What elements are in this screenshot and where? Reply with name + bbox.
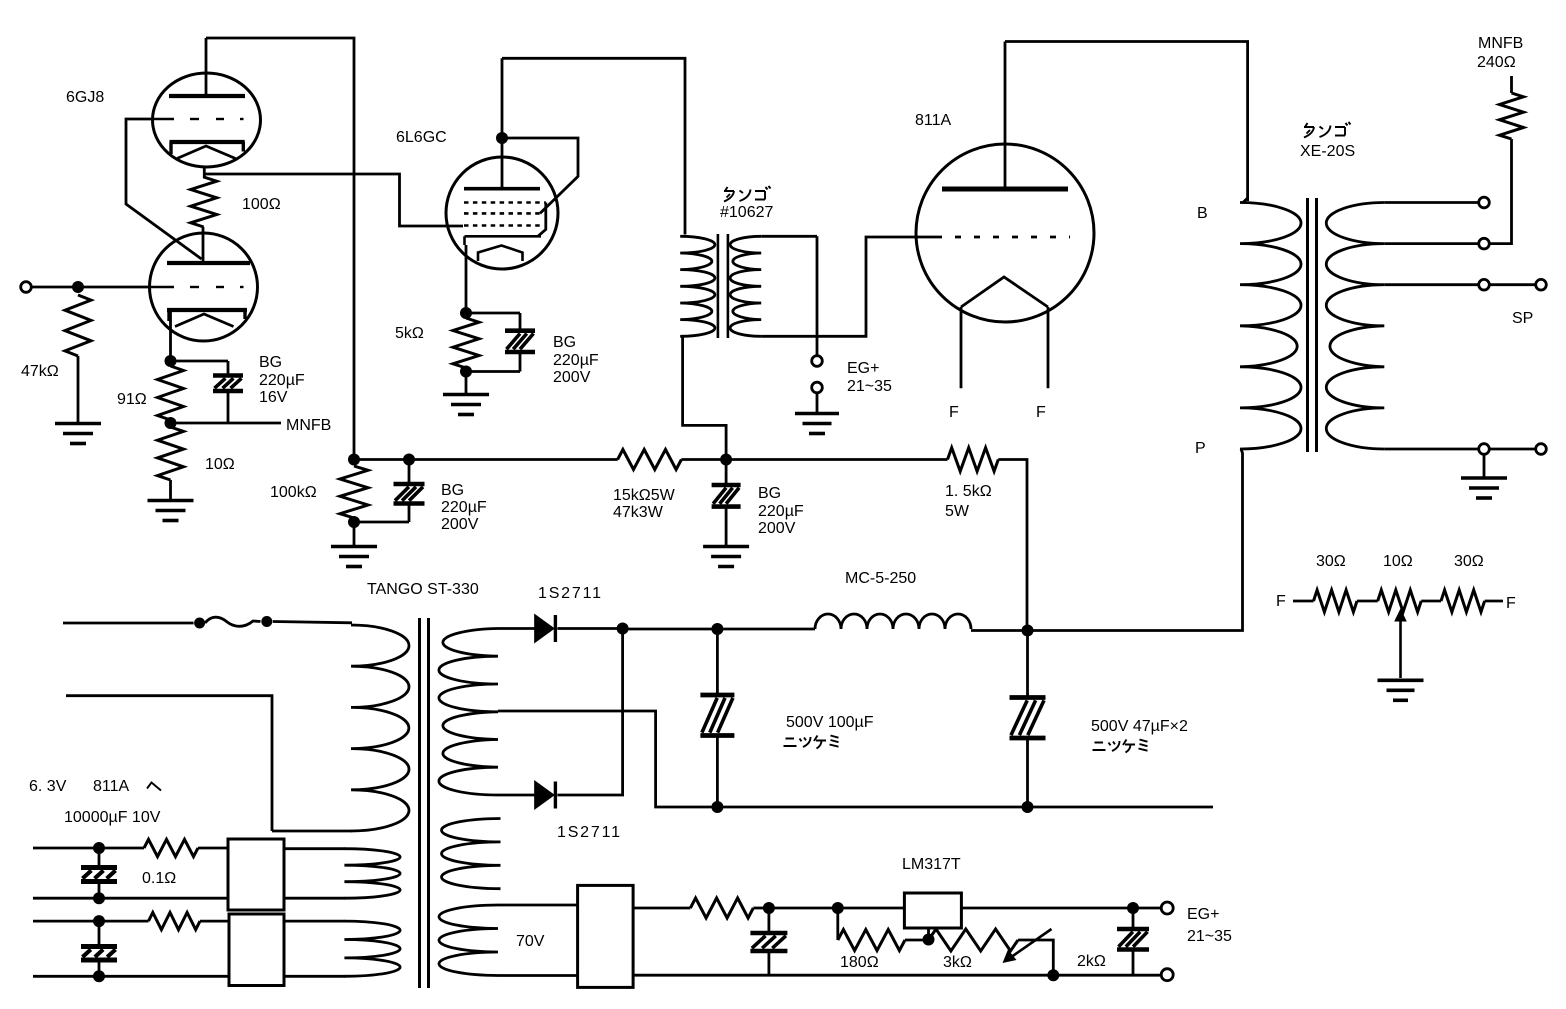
tube V3 6L6GC envelope [446,157,558,269]
C6 top lead [1026,631,1029,698]
T1 primary bottom wire [683,336,727,459]
svg-text:47kΩ: 47kΩ [21,363,59,380]
V2 heater filament [175,314,234,327]
wire F right lead [1485,600,1503,603]
svg-text:240Ω: 240Ω [1477,54,1516,71]
svg-text:5kΩ: 5kΩ [395,325,424,342]
wire box1 to winding A bottom [284,897,345,900]
svg-text:21~35: 21~35 [847,378,892,395]
T2 HV secondary winding [439,629,498,796]
terminal tap1 [1479,197,1490,208]
node filter cap (LM in) [763,902,775,914]
AC input wire 1 [63,622,194,625]
wire D2 to node [557,629,622,796]
svg-text:1. 5kΩ: 1. 5kΩ [945,483,992,500]
V3 cathode lead [465,245,468,313]
node 91Ω bottom / MNFB [165,417,177,429]
heater rail B bottom [33,975,229,978]
svg-text:70V: 70V [516,933,545,950]
svg-text:6L6GC: 6L6GC [396,129,447,146]
label ニッケミ (C6) [1093,743,1106,751]
svg-text:#10627: #10627 [720,204,773,221]
svg-text:10Ω: 10Ω [205,456,235,473]
svg-text:220µF: 220µF [553,352,599,369]
svg-text:2kΩ: 2kΩ [1077,953,1106,970]
svg-text:6. 3V: 6. 3V [29,778,67,795]
terminal EG+ out [1161,902,1173,914]
regulator LM317T box [904,893,961,928]
wire 10Ω to ground [169,480,172,499]
svg-text:EG+: EG+ [847,360,879,377]
V1 heater filament [177,146,236,159]
svg-text:1S2711: 1S2711 [538,585,603,602]
svg-text:BG: BG [259,354,282,371]
wire winding D to box3 top [498,904,578,907]
wire node to choke [623,628,815,631]
T3 tap lead 3 [1384,283,1477,286]
wire MNFB stub [171,422,282,425]
svg-text:F: F [1276,593,1286,610]
C7 top lead [768,908,771,933]
wire V1 cathode to 6L6GC grid [204,174,463,226]
C5 top lead [716,629,719,695]
node A1 [93,842,105,854]
wire 0.1Ω to box1 [198,847,228,850]
rectifier box3 (70V) [578,885,634,987]
T3 P lead [1028,449,1243,631]
label タンゴ (T1) [724,187,734,202]
capacitor C1 BG 220µF16V lead [227,361,230,376]
wire LM output [962,907,1161,910]
T2 filament winding C [441,819,500,889]
ground for C4 [703,547,749,567]
wire 1.5k to B+ node [998,460,1027,630]
C4 top lead [725,460,728,486]
svg-text:200V: 200V [441,516,479,533]
terminal EG- out [1161,969,1173,981]
capacitor C8 (2kΩ pos) [1117,908,1149,975]
svg-text:200V: 200V [553,369,591,386]
V4 filament lead F1 [960,307,963,388]
choke MC-5-250 [815,614,971,629]
diode D2 1S2711 [535,782,556,809]
V1 grid dashes [153,118,244,120]
svg-text:3kΩ: 3kΩ [943,954,972,971]
svg-text:P: P [1195,440,1206,457]
pot wiper arrow [1394,609,1407,679]
V3 plate bar [464,187,540,191]
T3 tap lead 2 [1384,242,1477,245]
svg-text:100Ω: 100Ω [242,196,281,213]
svg-text:LM317T: LM317T [902,856,961,873]
AC input wire 2 [66,696,272,831]
svg-text:100kΩ: 100kΩ [270,484,317,501]
node 100k bottom [348,516,360,528]
wire V1 grid [126,119,202,259]
resistor 1.5kΩ5W [948,448,999,472]
wire cathode to C1 [171,360,229,363]
wire box2 to winding B top [284,920,345,923]
T1 secondary top lead [761,235,817,238]
wire box3 to R series [633,907,690,910]
fuse dot left [194,618,205,629]
terminal tap4 [1479,444,1490,455]
resistor 180Ω [838,930,905,951]
node C5 bottom [711,801,723,813]
node 5k bottom [460,366,472,378]
svg-text:MNFB: MNFB [286,417,331,434]
node decoupling C3 [403,454,415,466]
wire B+ rail segment 1 [354,458,618,461]
svg-text:10Ω: 10Ω [1383,553,1413,570]
V2 plate bar [167,261,250,265]
wire LM input [769,907,905,910]
wire 0.1Ω B to box2 [200,920,229,923]
tube V4 811A envelope [916,144,1094,322]
wire 30-10 [1357,600,1378,603]
wire 47k to ground [77,356,80,422]
svg-text:F: F [1506,595,1516,612]
C7 bottom lead [768,951,771,975]
resistor series (70V) [690,898,753,918]
svg-text:EG+: EG+ [1187,906,1219,923]
svg-text:BG: BG [758,485,781,502]
svg-text:F: F [949,404,959,421]
V1 plate lead wire [205,38,208,96]
node choke output [1022,625,1034,637]
resistor 47kΩ [65,295,91,356]
C5 bottom lead [716,736,719,808]
C4 bottom lead [725,507,728,545]
wire fuse to primary [273,622,352,623]
wire tap4 to SP return [1491,448,1535,451]
wire B+ rail segment 2 [681,458,947,461]
wire V3 g2 tie [502,138,578,213]
V3 plate lead [501,58,504,188]
ground at EG+ terminal [795,414,839,434]
V3 grid row3 dashes [464,224,540,227]
svg-text:91Ω: 91Ω [117,391,147,408]
C3 bottom lead [408,504,411,523]
T2 primary winding [351,625,409,831]
node C5 top [711,623,723,635]
capacitor 10000µF A [81,848,117,898]
T3 primary top lead [1243,198,1248,203]
resistor 5kΩ [453,318,479,368]
node B+ rail left [348,454,360,466]
node C6 bottom [1022,801,1034,813]
svg-text:811A: 811A [93,778,130,795]
capacitor C1 BG 220µF 16V [213,376,243,392]
svg-text:500V 100µF: 500V 100µF [786,714,874,731]
resistor 91Ω [158,366,184,420]
capacitor C2 BG 220µF 200V [505,331,535,352]
T1 secondary bottom wire [761,237,936,336]
C2 top lead [519,313,522,331]
V4 filament [961,277,1048,307]
wire V1 plate to top rail [206,38,354,460]
node V3 plate [496,132,508,144]
tube V2 6GJ8 lower triode envelope [150,233,258,341]
svg-text:220µF: 220µF [758,503,804,520]
terminal tap3 [1479,279,1490,290]
V2 cathode bar [167,310,247,321]
node ADJ [923,934,935,946]
wire tap3 to SP [1491,283,1535,286]
V3 grid row1 dashes [464,201,546,204]
terminal SP return [1536,444,1547,455]
wire cathode to C2 [466,312,520,315]
node 3k bottom [1047,969,1059,981]
T2 core [420,618,429,988]
bottom return rail [633,974,1160,977]
V4 plate bar [942,187,1068,192]
svg-text:TANGO ST-330: TANGO ST-330 [367,581,479,598]
resistor 100Ω [191,177,217,227]
svg-text:1S2711: 1S2711 [557,824,622,841]
fuse element [205,617,261,626]
svg-text:F: F [1036,404,1046,421]
terminal tap2 [1479,238,1490,249]
label タンゴ (T3) [1304,123,1314,138]
heater rail A top [33,847,144,850]
ground for 100k [331,547,377,567]
svg-text:XE-20S: XE-20S [1300,143,1355,160]
V3 beam plate bracket [538,203,546,237]
HV top lead [498,627,535,630]
V2 cathode lead [169,310,172,361]
potentiometer 10Ω [1378,590,1422,612]
rectifier box2 [229,914,284,986]
C6 bottom lead [1026,738,1029,807]
rectifier box1 [228,839,284,910]
capacitor C4 BG 220µF 200V [712,485,741,507]
T3 secondary winding [1326,203,1384,450]
wire D1 to node [557,627,622,630]
wire 240Ω to tap2 [1491,139,1512,244]
T2 heater winding A [344,849,400,899]
node input junction [72,281,84,293]
V4 plate lead [1004,42,1007,190]
wire C2 to 5k bottom [466,370,520,373]
V1 cathode bar [170,142,245,154]
EG+ terminal ground stem [816,394,819,412]
svg-text:10000µF 10V: 10000µF 10V [64,809,161,826]
tube V1 6GJ8 upper triode envelope [153,73,261,167]
label ニッケミ (C5) [784,739,797,747]
wire 100k to ground [353,522,356,545]
T1 core [718,234,728,338]
svg-text:SP: SP [1512,310,1533,327]
T2 primary bottom lead [272,830,352,833]
wire 180 to ADJ [905,939,929,942]
svg-text:30Ω: 30Ω [1316,553,1346,570]
T1 secondary winding [730,236,761,336]
resistor 100kΩ [340,466,368,518]
svg-text:220µF: 220µF [259,372,305,389]
node V2 cathode [165,355,177,367]
V2 grid dashes [150,286,244,288]
input terminal [21,282,32,293]
resistor 15kΩ5W [618,450,682,470]
potentiometer 3kΩ [929,929,1019,951]
svg-text:6GJ8: 6GJ8 [66,89,104,106]
fuse dot right [261,616,272,627]
node B1 [93,915,105,927]
ground for 47k [55,424,101,444]
T3 tap lead 1 [1384,201,1477,204]
svg-text:BG: BG [553,334,576,351]
svg-text:0.1Ω: 0.1Ω [142,870,176,887]
resistor 30Ω right [1441,590,1485,612]
T3 primary winding [1240,203,1301,450]
ground at secondary common [1461,456,1507,499]
wire 180Ω stub [836,908,839,940]
wire 5k to ground [465,372,468,394]
svg-text:BG: BG [441,482,464,499]
wire input to V2 grid [33,286,151,289]
resistor 240Ω [1500,93,1524,139]
wire 10-30 [1421,600,1441,603]
svg-text:500V 47µF×2: 500V 47µF×2 [1091,718,1188,735]
svg-text:5W: 5W [945,503,970,520]
resistor 10Ω [158,427,184,480]
V4 grid dashes [936,236,1070,239]
T2 70V winding D [439,905,498,976]
C3 top lead [408,460,411,485]
wire winding D to box3 bottom [498,974,578,977]
svg-text:47k3W: 47k3W [613,504,664,521]
svg-text:200V: 200V [758,520,796,537]
ground for 5k [443,395,489,415]
svg-text:B: B [1197,205,1208,222]
svg-text:811A: 811A [915,112,952,129]
V3 cathode bar [465,236,542,245]
node B2 [93,970,105,982]
terminal EG+ lower [812,382,823,393]
resistor 30Ω left [1314,590,1358,612]
node LM317 input stub [832,902,844,914]
T3 core [1308,198,1317,452]
svg-text:220µF: 220µF [441,499,487,516]
V3 heater [478,246,523,262]
wire R to node [753,907,769,910]
node rectifier output [617,623,629,635]
wire F left lead [1293,600,1314,603]
V1 cathode lead [203,166,206,179]
heater rail A bottom [33,897,228,900]
svg-text:16V: 16V [259,389,288,406]
node T1 B+ junction [720,454,732,466]
capacitor C7 [750,933,787,951]
svg-text:MNFB: MNFB [1478,35,1523,52]
wire choke to P [971,629,1028,632]
V1 plate bar [169,94,245,98]
wire 100k bottom to C3 [354,521,409,524]
T1 primary winding [680,236,715,336]
capacitor 10000µF B [81,921,117,976]
ground for 10Ω [148,501,194,521]
capacitor C5 500V100µF [700,695,734,736]
pot 3k wiper arrow [1003,929,1052,963]
T2 heater winding B [344,921,400,976]
HV center tap wire [498,711,1213,807]
wire V4 plate to OPT B [1005,42,1248,202]
capacitor C3 BG 220µF 200V [394,484,425,504]
node A2 [93,892,105,904]
svg-text:180Ω: 180Ω [840,954,879,971]
terminal SP hot [1536,279,1547,290]
HV bottom lead [498,794,535,797]
C1 bottom lead [227,391,230,423]
LM317 ADJ lead [927,928,930,940]
wire 3k to bottom rail [1018,940,1053,975]
heater rail B top [33,920,149,923]
diode D1 1S2711 [535,615,556,642]
svg-text:21~35: 21~35 [1187,928,1232,945]
V4 filament lead F2 [1047,307,1050,388]
wire box1 to winding A top [284,847,345,850]
V2 plate lead [202,227,205,261]
svg-text:MC-5-250: MC-5-250 [845,570,916,587]
capacitor C6 500V47µFx2 [1010,698,1046,739]
node EG+ cap top [1127,902,1139,914]
node V3 cathode [460,307,472,319]
wire box2 to winding B bottom [284,975,345,978]
C2 bottom lead [519,352,522,372]
wire to EG+ terminal [816,236,819,354]
svg-text:30Ω: 30Ω [1454,553,1484,570]
wire V3 plate to interstage [502,58,685,234]
MNFB resistor top stub [1510,76,1513,93]
resistor 0.1Ω B [149,913,201,930]
terminal EG+ upper [812,356,823,367]
svg-text:15kΩ5W: 15kΩ5W [613,487,676,504]
resistor 0.1Ω A [144,839,198,856]
T3 tap lead 4 (common) [1384,448,1477,451]
V3 grid row2 dashes [464,212,540,215]
ground at hum pot [1378,680,1424,700]
